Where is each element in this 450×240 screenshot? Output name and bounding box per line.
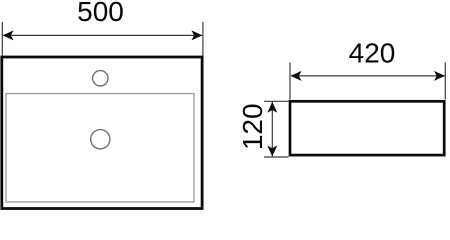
svg-text:420: 420: [349, 37, 396, 68]
arrowhead 500 right: [191, 30, 202, 40]
svg-text:120: 120: [237, 103, 268, 150]
svg-text:500: 500: [77, 0, 124, 27]
drain hole: [91, 130, 110, 149]
dimension line 500: [3, 34, 202, 36]
arrowhead 500 left: [3, 30, 14, 40]
extension line right (420): [444, 63, 446, 100]
sink top-view outline: [2, 57, 202, 209]
extension line top (120): [264, 100, 289, 102]
arrowhead 120 top: [267, 102, 277, 113]
arrowhead 420 left: [291, 71, 302, 81]
basin inner rectangle: [6, 94, 194, 202]
side-view slab outline: [290, 101, 444, 155]
dimension line 120: [271, 102, 273, 156]
faucet hole: [93, 71, 108, 86]
extension line left (420): [289, 63, 291, 100]
dimension line 420: [291, 75, 445, 77]
extension line left (500): [1, 22, 3, 56]
arrowhead 420 right: [434, 71, 445, 81]
extension line right (500): [202, 22, 204, 56]
extension line bottom (120): [264, 156, 289, 158]
arrowhead 120 bottom: [267, 146, 277, 157]
